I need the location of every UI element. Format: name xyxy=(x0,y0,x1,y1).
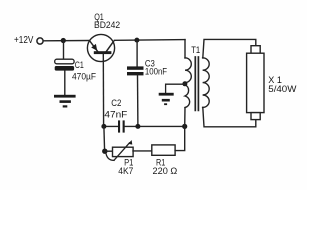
wire R1 to transformer branch xyxy=(175,126,185,150)
wire C2 row left xyxy=(104,125,118,127)
label C1 xyxy=(72,60,96,82)
wire P1 to R1 xyxy=(133,150,152,152)
label Q1 xyxy=(94,12,120,30)
label C3 xyxy=(145,59,168,77)
svg-text:+12V: +12V xyxy=(14,35,34,46)
capacitor C1 xyxy=(55,59,74,70)
wire base branch down to P1 xyxy=(103,126,106,151)
node primary centre tap xyxy=(182,81,187,86)
label X1 xyxy=(268,75,297,94)
svg-text:47nF: 47nF xyxy=(104,110,127,120)
wire secondary bottom xyxy=(203,107,256,126)
wire C2 row right xyxy=(125,125,185,127)
wire transformer left vertical bottom xyxy=(184,108,186,127)
lamp X1 xyxy=(247,46,264,120)
svg-text:470µF: 470µF xyxy=(72,72,96,82)
wire C1 to ground xyxy=(64,71,66,95)
svg-text:4K7: 4K7 xyxy=(118,166,133,176)
wire C3 lead bottom xyxy=(137,75,139,126)
wire base lead xyxy=(102,54,104,126)
svg-text:220 Ω: 220 Ω xyxy=(153,166,178,176)
wire C1 lead top xyxy=(63,41,65,60)
wire centre tap to ground xyxy=(166,84,185,93)
node junction C3/rail xyxy=(134,38,139,43)
capacitor C3 xyxy=(127,66,144,75)
svg-text:BD242: BD242 xyxy=(94,20,120,30)
node transformer/C2 junction xyxy=(182,124,187,129)
node base/C2 junction xyxy=(101,124,106,129)
transformer T1 secondary winding xyxy=(203,58,210,108)
wire top rail left xyxy=(43,40,89,42)
label +12V xyxy=(14,35,34,46)
svg-text:C1: C1 xyxy=(75,60,84,70)
svg-text:5/40W: 5/40W xyxy=(268,84,297,94)
node C3/C2 junction xyxy=(135,124,140,129)
capacitor C2 xyxy=(118,120,125,132)
svg-text:C2: C2 xyxy=(111,98,121,108)
ground (C1) xyxy=(54,95,76,108)
label R1 xyxy=(153,158,178,177)
transformer core xyxy=(195,57,198,110)
transistor Q1 BD242 (PNP) xyxy=(87,34,114,61)
ground (centre tap) xyxy=(159,93,174,105)
node junction C1/rail xyxy=(61,38,66,43)
potentiometer P1 xyxy=(113,140,134,160)
svg-text:T1: T1 xyxy=(191,45,200,55)
transformer T1 primary winding xyxy=(185,58,191,108)
label P1 xyxy=(118,158,133,177)
wire C3 lead top xyxy=(136,40,138,66)
node P1 junction xyxy=(102,149,107,154)
svg-text:100nF: 100nF xyxy=(145,66,168,76)
wire top rail mid xyxy=(115,39,186,42)
wire node to P1 xyxy=(105,150,113,152)
resistor R1 xyxy=(152,145,175,155)
wire wiper curve xyxy=(106,154,114,161)
label C2 xyxy=(104,98,127,119)
terminal +12V input xyxy=(37,38,43,44)
label T1 xyxy=(191,45,200,55)
wire transformer left vertical top xyxy=(184,40,186,58)
wire secondary top xyxy=(203,39,256,58)
